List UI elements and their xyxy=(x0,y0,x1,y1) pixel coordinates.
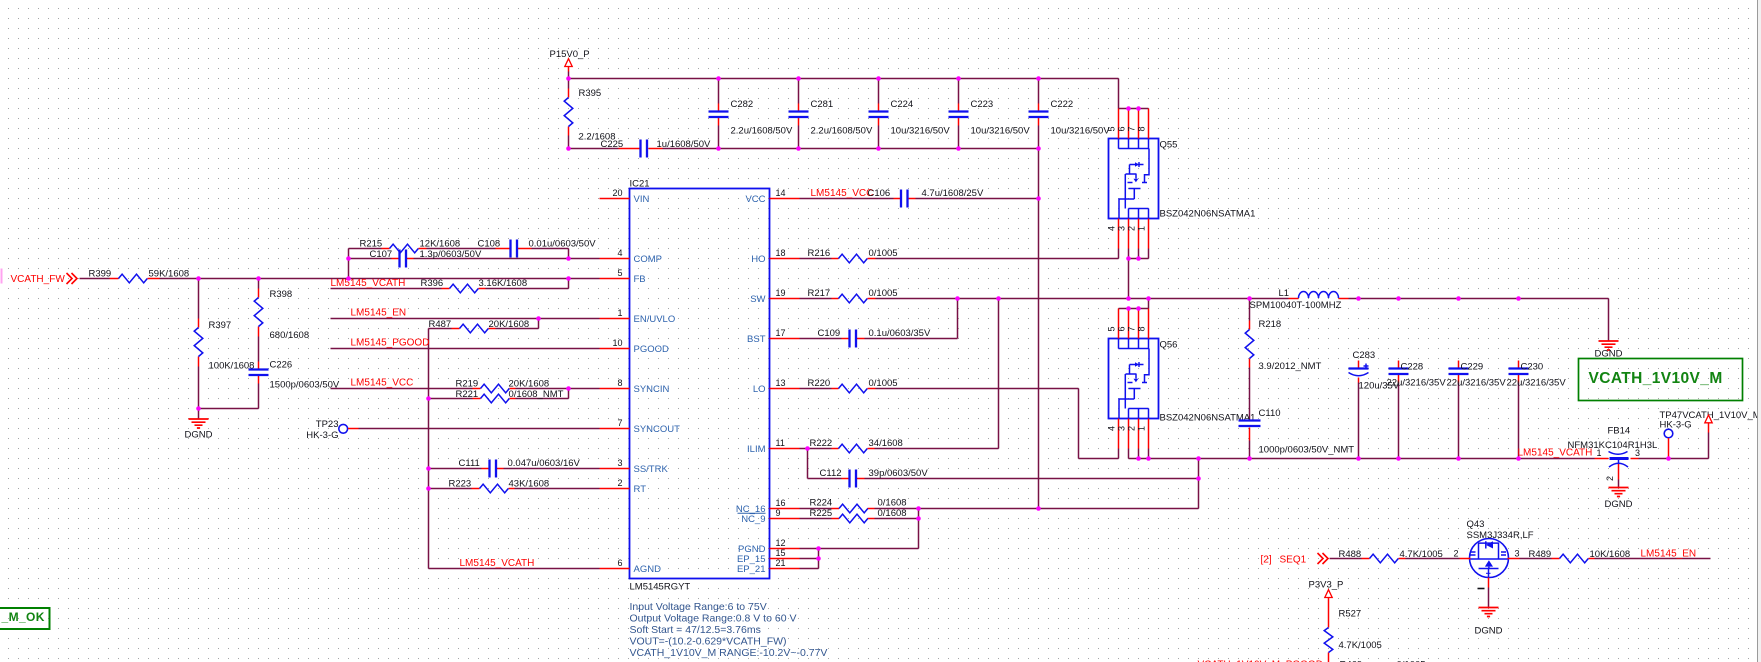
label box _M_OK xyxy=(0,608,50,629)
svg-text:LM5145_PGOOD: LM5145_PGOOD xyxy=(351,338,430,349)
svg-text:R219: R219 xyxy=(456,379,479,390)
svg-text:3: 3 xyxy=(1635,448,1640,458)
svg-text:13: 13 xyxy=(776,378,786,388)
svg-text:1.3p/0603/50V: 1.3p/0603/50V xyxy=(420,249,482,260)
ground DGND under Q43 xyxy=(1475,608,1503,637)
svg-text:2: 2 xyxy=(617,478,622,488)
svg-text:ILIM: ILIM xyxy=(747,444,766,455)
svg-text:20K/1608: 20K/1608 xyxy=(509,379,550,390)
svg-text:LM5145_VCATH: LM5145_VCATH xyxy=(1518,448,1593,459)
wire NC/PGND tie net xyxy=(800,509,1199,569)
svg-text:EN/UVLO: EN/UVLO xyxy=(634,314,676,325)
svg-text:EP_21: EP_21 xyxy=(737,564,766,575)
svg-text:4.7K/1005: 4.7K/1005 xyxy=(1400,549,1443,560)
svg-text:DGND: DGND xyxy=(185,430,213,441)
svg-text:C281: C281 xyxy=(811,99,834,110)
svg-text:4.7K/1005: 4.7K/1005 xyxy=(1339,640,1382,651)
svg-text:0/1608: 0/1608 xyxy=(878,498,907,509)
svg-text:3: 3 xyxy=(617,458,622,468)
svg-text:SEQ1: SEQ1 xyxy=(1280,555,1307,566)
resistor R221 xyxy=(456,389,564,403)
capacitor C281 xyxy=(789,99,873,137)
wire SEQ1 / Q43 EN net xyxy=(1330,559,1711,608)
svg-text:HK-3-G: HK-3-G xyxy=(306,430,338,441)
wire RT net xyxy=(429,488,600,490)
svg-text:16: 16 xyxy=(776,498,786,508)
svg-text:SS/TRK: SS/TRK xyxy=(634,464,669,475)
svg-text:0/1608: 0/1608 xyxy=(878,508,907,519)
wire R398/C226 branch xyxy=(258,279,260,409)
svg-text:NC_9: NC_9 xyxy=(741,514,765,525)
wire R397 branch xyxy=(199,279,259,419)
svg-text:Input Voltage Range:6 to 75V: Input Voltage Range:6 to 75V xyxy=(630,601,767,613)
svg-text:10K/1608: 10K/1608 xyxy=(1590,549,1631,560)
power symbol VCATH_1V10V_M xyxy=(1705,415,1712,433)
testpoint TP23 xyxy=(306,419,358,441)
svg-text:R527: R527 xyxy=(1339,609,1362,620)
capacitor C223 xyxy=(949,99,1031,137)
svg-text:C223: C223 xyxy=(971,99,994,110)
capacitor C230 xyxy=(1507,361,1567,389)
svg-text:TP23: TP23 xyxy=(316,419,339,430)
svg-text:BSZ042N06NSATMA1: BSZ042N06NSATMA1 xyxy=(1160,413,1256,424)
wire VCATH_FW / FB node net xyxy=(80,249,600,289)
svg-text:BST: BST xyxy=(747,334,766,345)
svg-text:R398: R398 xyxy=(270,289,293,300)
notes text block xyxy=(630,601,828,659)
svg-text:Output Voltage Range:0.8 V to: Output Voltage Range:0.8 V to 60 V xyxy=(630,613,797,625)
svg-text:7: 7 xyxy=(1127,326,1137,331)
resistor R527 xyxy=(1324,609,1382,662)
wire SS/TRK net xyxy=(429,468,600,470)
wire LO gate net xyxy=(800,389,1119,459)
svg-text:6: 6 xyxy=(1117,126,1127,131)
svg-text:3: 3 xyxy=(1117,226,1127,231)
capacitor C283 electrolytic xyxy=(1349,350,1400,392)
svg-text:0/1005: 0/1005 xyxy=(869,288,898,299)
svg-text:VOUT=-(10.2-0.629*VCATH_FW): VOUT=-(10.2-0.629*VCATH_FW) xyxy=(630,636,787,648)
svg-text:5: 5 xyxy=(1107,326,1117,331)
svg-text:C282: C282 xyxy=(731,99,754,110)
resistor R217 xyxy=(808,288,898,303)
svg-text:5: 5 xyxy=(617,268,622,278)
svg-text:19: 19 xyxy=(776,288,786,298)
svg-text:8: 8 xyxy=(1137,126,1147,131)
svg-text:R396: R396 xyxy=(421,278,444,289)
svg-text:LM5145_VCATH: LM5145_VCATH xyxy=(331,278,406,289)
svg-text:4: 4 xyxy=(1107,226,1117,231)
svg-text:11: 11 xyxy=(776,438,785,448)
svg-text:R223: R223 xyxy=(449,479,472,490)
svg-text:R489: R489 xyxy=(1529,549,1552,560)
svg-text:DGND: DGND xyxy=(1475,626,1503,637)
svg-text:C225: C225 xyxy=(601,139,624,150)
wire SYNCOUT net xyxy=(359,428,600,430)
resistor R219 xyxy=(456,379,550,393)
svg-text:C283: C283 xyxy=(1353,350,1376,361)
svg-text:7: 7 xyxy=(617,418,622,428)
capacitor C109 xyxy=(818,328,931,348)
wire P15V0_P input bus xyxy=(569,72,1149,109)
capacitor C110 xyxy=(1239,408,1355,456)
svg-text:R220: R220 xyxy=(808,378,831,389)
resistor R395 xyxy=(564,88,615,143)
wire VCATH output / power-ground bus xyxy=(1129,383,1709,509)
svg-text:6: 6 xyxy=(617,558,622,568)
svg-text:LM5145_VCC: LM5145_VCC xyxy=(351,378,414,389)
ground DGND under FB14 xyxy=(1605,488,1633,511)
svg-text:SYNCOUT: SYNCOUT xyxy=(634,424,681,435)
svg-text:C229: C229 xyxy=(1461,362,1484,373)
svg-text:C107: C107 xyxy=(370,249,393,260)
svg-text:PGOOD: PGOOD xyxy=(634,344,670,355)
svg-text:R225: R225 xyxy=(810,508,833,519)
svg-text:34/1608: 34/1608 xyxy=(869,438,903,449)
svg-text:IC21: IC21 xyxy=(630,179,650,190)
wire input ground bus / LM5145_VCATH vertical xyxy=(569,126,1039,509)
svg-text:SW: SW xyxy=(750,294,765,305)
svg-text:SYNCIN: SYNCIN xyxy=(634,384,670,395)
svg-text:1500p/0603/50V: 1500p/0603/50V xyxy=(270,380,340,391)
resistor R218 xyxy=(1245,319,1321,372)
svg-text:Soft Start = 47/12.5=3.76ms: Soft Start = 47/12.5=3.76ms xyxy=(630,624,761,636)
svg-text:2: 2 xyxy=(1127,226,1137,231)
svg-text:0/1005: 0/1005 xyxy=(869,378,898,389)
svg-text:P3V3_P: P3V3_P xyxy=(1309,580,1344,591)
svg-text:C108: C108 xyxy=(478,239,501,250)
svg-text:2: 2 xyxy=(1127,426,1137,431)
svg-text:0.047u/0603/16V: 0.047u/0603/16V xyxy=(508,458,581,469)
svg-text:_M_OK: _M_OK xyxy=(1,610,45,624)
svg-text:R488: R488 xyxy=(1339,549,1362,560)
svg-text:R218: R218 xyxy=(1259,319,1282,330)
resistor R397 xyxy=(194,319,254,372)
svg-text:10u/3216/50V: 10u/3216/50V xyxy=(891,126,951,137)
svg-text:HK-3-G: HK-3-G xyxy=(1660,420,1692,431)
svg-text:14: 14 xyxy=(776,188,786,198)
svg-text:59K/1608: 59K/1608 xyxy=(149,269,190,280)
svg-text:0/1005: 0/1005 xyxy=(869,248,898,259)
svg-text:4.7u/1608/25V: 4.7u/1608/25V xyxy=(922,188,984,199)
transistor Q55 xyxy=(1107,109,1256,249)
capacitor C229 xyxy=(1447,361,1507,389)
capacitor C226 xyxy=(249,360,340,391)
svg-text:10u/3216/50V: 10u/3216/50V xyxy=(971,126,1031,137)
svg-text:DGND: DGND xyxy=(1605,499,1633,510)
svg-text:R222: R222 xyxy=(810,438,833,449)
svg-text:C228: C228 xyxy=(1401,362,1424,373)
svg-text:8: 8 xyxy=(1137,326,1147,331)
svg-text:4: 4 xyxy=(1107,426,1117,431)
svg-text:R399: R399 xyxy=(89,269,112,280)
capacitor C107 xyxy=(370,249,482,268)
resistor R396 xyxy=(331,278,528,293)
capacitor C112 xyxy=(820,468,929,488)
svg-text:VCATH_FW: VCATH_FW xyxy=(11,274,66,285)
svg-text:C111: C111 xyxy=(459,458,480,469)
op-amp U IC21 LM5145RGYT body xyxy=(600,179,800,593)
svg-text:VCATH_1V10V_M: VCATH_1V10V_M xyxy=(1589,370,1723,387)
capacitor C224 xyxy=(869,99,951,137)
svg-text:22u/3216/35V: 22u/3216/35V xyxy=(1387,378,1447,389)
svg-text:43K/1608: 43K/1608 xyxy=(509,479,550,490)
svg-text:12K/1608: 12K/1608 xyxy=(420,239,461,250)
label box VCATH_1V10V_M xyxy=(1579,359,1743,401)
svg-text:VCC: VCC xyxy=(745,194,765,205)
svg-text:1u/1608/50V: 1u/1608/50V xyxy=(657,139,712,150)
resistor R222 xyxy=(810,438,903,453)
svg-text:9: 9 xyxy=(776,508,781,518)
capacitor C228 xyxy=(1387,361,1447,389)
svg-text:3.9/2012_NMT: 3.9/2012_NMT xyxy=(1259,361,1322,372)
svg-text:C224: C224 xyxy=(891,99,914,110)
wire COMP net xyxy=(349,249,600,259)
capacitor C225 xyxy=(601,139,712,158)
svg-text:FB14: FB14 xyxy=(1608,426,1631,437)
svg-text:Q56: Q56 xyxy=(1160,340,1178,351)
svg-text:[2]: [2] xyxy=(1261,555,1272,566)
svg-text:39p/0603/50V: 39p/0603/50V xyxy=(869,468,929,479)
svg-text:LO: LO xyxy=(753,384,766,395)
svg-text:HO: HO xyxy=(751,254,765,265)
svg-text:1000p/0603/50V_NMT: 1000p/0603/50V_NMT xyxy=(1259,445,1355,456)
power symbol P15V0_P xyxy=(550,49,590,72)
svg-text:C106: C106 xyxy=(868,188,891,199)
svg-text:P15V0_P: P15V0_P xyxy=(550,49,590,60)
svg-text:8: 8 xyxy=(617,378,622,388)
capacitor C222 xyxy=(1029,99,1111,137)
svg-text:1: 1 xyxy=(1137,426,1147,431)
capacitor C108 xyxy=(478,239,597,258)
svg-text:FB: FB xyxy=(634,274,646,285)
wire output DGND net after L1 xyxy=(1250,299,1609,420)
svg-text:LM5145_VCATH: LM5145_VCATH xyxy=(460,558,535,569)
resistor R489 xyxy=(1529,549,1631,563)
wire LM5145_VCC / SYNCIN net xyxy=(331,389,600,399)
port SEQ1 xyxy=(1261,553,1329,566)
transistor Q43 xyxy=(1453,519,1533,589)
resistor R225 xyxy=(810,508,907,523)
svg-text:100K/1608: 100K/1608 xyxy=(209,361,255,372)
svg-text:C110: C110 xyxy=(1259,408,1281,419)
svg-text:RT: RT xyxy=(634,484,647,495)
testpoint TP47 xyxy=(1660,410,1761,459)
svg-text:AGND: AGND xyxy=(634,564,662,575)
svg-text:VCATH_1V10V_M RANGE:-10.2V~-0.: VCATH_1V10V_M RANGE:-10.2V~-0.77V xyxy=(630,647,828,659)
svg-text:C230: C230 xyxy=(1521,362,1544,373)
svg-text:SPM10040T-100MHZ: SPM10040T-100MHZ xyxy=(1250,300,1342,311)
svg-text:15: 15 xyxy=(776,548,786,558)
svg-text:3.16K/1608: 3.16K/1608 xyxy=(479,278,528,289)
power symbol P3V3_P xyxy=(1309,580,1344,628)
svg-text:12: 12 xyxy=(776,538,786,548)
wire LM5145_EN net xyxy=(331,319,600,569)
svg-text:LM5145RGYT: LM5145RGYT xyxy=(630,582,691,593)
svg-text:20: 20 xyxy=(612,188,622,198)
svg-text:C226: C226 xyxy=(270,360,293,371)
svg-text:6: 6 xyxy=(1117,326,1127,331)
resistor R398 xyxy=(254,289,309,342)
svg-text:2.2u/1608/50V: 2.2u/1608/50V xyxy=(811,126,873,137)
wire LM5145_PGOOD net xyxy=(331,348,600,350)
svg-text:BSZ042N06NSATMA1: BSZ042N06NSATMA1 xyxy=(1160,209,1256,220)
svg-text:R215: R215 xyxy=(360,239,383,250)
svg-text:3: 3 xyxy=(1117,426,1127,431)
svg-text:1: 1 xyxy=(1597,448,1602,458)
svg-text:10: 10 xyxy=(612,338,622,348)
svg-text:C112: C112 xyxy=(820,468,842,479)
svg-text:SSM3J334R,LF: SSM3J334R,LF xyxy=(1467,530,1534,541)
svg-text:2.2u/1608/50V: 2.2u/1608/50V xyxy=(731,126,793,137)
svg-text:1: 1 xyxy=(1137,226,1147,231)
resistor R215 xyxy=(360,239,461,253)
window scrollbar edge xyxy=(1758,0,1761,662)
svg-text:0.01u/0603/50V: 0.01u/0603/50V xyxy=(529,239,597,250)
resistor R399 xyxy=(89,269,190,283)
wire HO gate net xyxy=(800,249,1119,259)
wire ILIM sense net xyxy=(800,299,1199,479)
wire SW node net xyxy=(800,249,1289,339)
svg-text:R221: R221 xyxy=(456,389,479,400)
svg-text:VIN: VIN xyxy=(634,194,650,205)
svg-text:21: 21 xyxy=(776,558,786,568)
svg-text:20K/1608: 20K/1608 xyxy=(489,319,530,330)
svg-text:LM5145_EN: LM5145_EN xyxy=(351,308,407,319)
wire BST net xyxy=(800,338,958,340)
resistor R224 xyxy=(810,498,907,513)
svg-text:R216: R216 xyxy=(808,248,831,259)
ferrite bead FB14 xyxy=(1518,426,1658,482)
svg-text:4: 4 xyxy=(617,248,622,258)
svg-text:Q43: Q43 xyxy=(1467,519,1485,530)
svg-text:COMP: COMP xyxy=(634,254,663,265)
svg-text:3: 3 xyxy=(1515,549,1520,559)
svg-text:R224: R224 xyxy=(810,498,833,509)
resistor R223 xyxy=(449,479,550,493)
transistor Q56 xyxy=(1107,309,1256,449)
resistor R488 xyxy=(1339,549,1443,563)
ground DGND left xyxy=(185,419,213,441)
svg-text:R397: R397 xyxy=(209,320,232,331)
resistor R487 xyxy=(429,319,530,333)
resistor R220 xyxy=(808,378,898,393)
svg-text:17: 17 xyxy=(776,328,786,338)
svg-text:0/1608_NMT: 0/1608_NMT xyxy=(509,389,564,400)
svg-text:2: 2 xyxy=(1453,549,1458,559)
capacitor C106 xyxy=(811,188,984,208)
svg-text:22u/3216/35V: 22u/3216/35V xyxy=(1507,378,1567,389)
svg-text:1: 1 xyxy=(617,308,622,318)
svg-text:5: 5 xyxy=(1107,126,1117,131)
capacitor C111 xyxy=(459,458,581,478)
svg-text:Q55: Q55 xyxy=(1160,140,1178,151)
svg-text:2: 2 xyxy=(1605,476,1615,481)
svg-text:L1: L1 xyxy=(1279,288,1290,299)
svg-text:LM5145_EN: LM5145_EN xyxy=(1641,549,1697,560)
svg-text:22u/3216/35V: 22u/3216/35V xyxy=(1447,378,1507,389)
svg-text:R395: R395 xyxy=(579,88,602,99)
port VCATH_FW off-page connector xyxy=(1,269,78,286)
svg-text:0.1u/0603/35V: 0.1u/0603/35V xyxy=(869,328,931,339)
svg-text:C222: C222 xyxy=(1051,99,1074,110)
resistor R216 xyxy=(808,248,898,263)
svg-text:7: 7 xyxy=(1127,126,1137,131)
svg-text:R487: R487 xyxy=(429,319,452,330)
svg-text:18: 18 xyxy=(776,248,786,258)
svg-text:10u/3216/50V: 10u/3216/50V xyxy=(1051,126,1111,137)
svg-text:C109: C109 xyxy=(818,328,841,339)
inductor L1 xyxy=(1250,288,1349,311)
ground DGND output xyxy=(1595,341,1623,360)
svg-text:LM5145_VCC: LM5145_VCC xyxy=(811,188,874,199)
svg-text:R217: R217 xyxy=(808,288,831,299)
svg-text:680/1608: 680/1608 xyxy=(270,330,310,341)
capacitor C282 xyxy=(709,99,793,137)
wire LM5145_VCC net xyxy=(800,198,1039,200)
